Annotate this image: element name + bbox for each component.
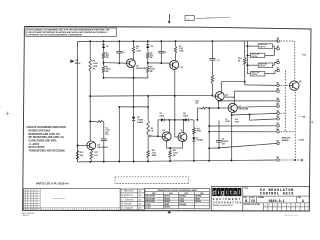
svg-text:E: E — [265, 205, 266, 207]
junction — [208, 125, 210, 127]
junction — [249, 113, 251, 115]
resistor R14 — [201, 107, 208, 109]
pin BM — [277, 131, 280, 134]
svg-text:D-664: D-664 — [179, 200, 184, 203]
pin BE — [277, 90, 280, 93]
wire Q1 emitter — [132, 66, 134, 78]
svg-text:DEC6534B: DEC6534B — [136, 67, 146, 70]
svg-text:1N645: 1N645 — [195, 197, 200, 200]
margin mark arrow top — [168, 14, 170, 22]
svg-text:W. Hindle: W. Hindle — [121, 203, 132, 206]
svg-text:DEC FORM NO.: DEC FORM NO. — [22, 213, 35, 215]
printed circuit rev row — [243, 202, 309, 204]
transistor Q6 — [215, 92, 224, 101]
junction — [231, 114, 233, 116]
transistor Q1 — [126, 59, 135, 68]
wire R12 to Q6 base — [211, 83, 213, 96]
pin AF — [277, 47, 280, 50]
capacitor C6 — [101, 138, 107, 140]
junction — [174, 119, 176, 121]
junction — [147, 95, 149, 97]
svg-text:D-662: D-662 — [179, 198, 184, 200]
wire Q1 collector — [133, 53, 135, 60]
svg-text:UNLESS OTHERWISE INDICATED:: UNLESS OTHERWISE INDICATED: — [27, 126, 67, 129]
resistor R16 — [76, 150, 79, 159]
wire — [247, 54, 250, 56]
svg-text:2N3534: 2N3534 — [164, 197, 170, 200]
wire cross link — [119, 106, 148, 108]
input arrow +6V INPUT — [71, 60, 74, 63]
junction — [196, 119, 198, 121]
wire dashed stub — [281, 130, 296, 132]
resistor R4 — [133, 41, 135, 46]
svg-text:CIRCUITS ARE PROPRIETARY IN NA: CIRCUITS ARE PROPRIETARY IN NATURE AND S… — [27, 31, 108, 34]
wire pin line B8 — [209, 131, 277, 133]
resistor R12 — [211, 75, 214, 84]
svg-text:E: E — [302, 205, 303, 207]
wire — [133, 120, 135, 161]
svg-text:E: E — [274, 205, 275, 207]
wire dashed to Q8 collector — [294, 41, 296, 81]
resistor R1 — [89, 59, 92, 71]
potentiometer R9 — [147, 120, 150, 135]
junction — [211, 94, 213, 96]
svg-text:E: E — [269, 205, 270, 207]
junction — [169, 160, 171, 162]
wire — [147, 73, 149, 78]
wire Q4 emitter — [167, 140, 169, 141]
margin stamp box top — [185, 16, 194, 21]
svg-text:.01: .01 — [122, 52, 125, 54]
svg-text:MV4045: MV4045 — [179, 203, 186, 206]
junction — [244, 81, 246, 83]
wire Q4 collector — [168, 131, 169, 134]
svg-text:J. Cudmore: J. Cudmore — [121, 199, 134, 202]
svg-text:Q4: Q4 — [162, 129, 164, 132]
svg-text:D-664: D-664 — [146, 205, 151, 208]
svg-text:EQUIPMENT: EQUIPMENT — [213, 198, 242, 201]
wire node line — [197, 107, 200, 109]
svg-text:DEC6534D: DEC6534D — [146, 200, 156, 203]
margin cross left — [6, 113, 10, 115]
revision arrow mark — [168, 210, 171, 213]
svg-text:1W 5%: 1W 5% — [252, 74, 258, 76]
wire — [247, 45, 258, 47]
wire Q7 collector — [233, 91, 235, 104]
wire — [211, 60, 213, 75]
transistor Q8 external — [290, 81, 299, 90]
wire dashed bus — [284, 71, 286, 132]
svg-text:LOAD: LOAD — [298, 138, 304, 141]
junction — [118, 62, 120, 64]
svg-text:COPYRIGHT 1967 BY DIGITAL EQUI: COPYRIGHT 1967 BY DIGITAL EQUIPMENT CORP… — [27, 33, 82, 36]
junction — [230, 160, 232, 162]
junction — [118, 161, 120, 163]
wire Q1 base — [104, 62, 127, 64]
svg-text:1W 5%: 1W 5% — [259, 66, 265, 68]
junction — [89, 161, 91, 163]
wire pin line B4 — [237, 106, 277, 107]
svg-text:NUMBER: NUMBER — [258, 197, 264, 199]
wire dashed stub — [281, 112, 286, 114]
svg-text:D-662: D-662 — [146, 204, 151, 206]
svg-text:G810-0-1: G810-0-1 — [269, 199, 285, 203]
junction — [218, 100, 220, 102]
pin BD — [277, 84, 280, 87]
svg-text:AJ: AJ — [277, 67, 279, 70]
svg-text:E: E — [292, 205, 293, 207]
junction — [211, 40, 213, 42]
svg-text:1N3606: 1N3606 — [164, 206, 170, 208]
svg-text:4-3: 4-3 — [139, 190, 142, 193]
junction — [218, 147, 220, 149]
wire Q5 emitter — [183, 140, 185, 141]
junction — [133, 40, 135, 42]
svg-text:i: i — [218, 191, 219, 197]
junction — [208, 131, 210, 133]
pin BK — [277, 118, 280, 121]
wire Q5 collector — [183, 133, 186, 134]
junction — [103, 161, 105, 163]
svg-text:5%: 5% — [93, 68, 96, 70]
svg-text:DEC3009B: DEC3009B — [146, 196, 156, 198]
svg-text:1N748A: 1N748A — [195, 195, 202, 198]
resistor box R18 — [258, 44, 272, 49]
pin BP — [277, 159, 280, 162]
transistor Q3 — [87, 141, 96, 150]
svg-text:g: g — [221, 191, 224, 197]
digital logo boxes — [212, 188, 216, 196]
svg-text:d: d — [213, 191, 216, 197]
svg-text:.01MF: .01MF — [225, 121, 230, 123]
svg-text:l: l — [239, 191, 240, 197]
svg-text:A: A — [302, 199, 304, 203]
wire pin line B6 — [250, 119, 278, 120]
svg-text:1/4W: 1/4W — [152, 154, 157, 157]
wire drop — [249, 114, 251, 120]
svg-text:S. Marshall: S. Marshall — [121, 190, 134, 193]
pin BJ — [277, 112, 280, 115]
svg-text:i: i — [226, 191, 227, 197]
transistor Q2 — [170, 60, 179, 69]
svg-text:1N748A: 1N748A — [196, 139, 203, 142]
wire V197 drop — [196, 108, 198, 120]
wire — [147, 59, 149, 66]
wire Q6 collector — [220, 82, 222, 93]
svg-text:D662: D662 — [235, 121, 239, 123]
diode D1 — [103, 41, 105, 44]
junction — [169, 147, 171, 149]
transistor Q7 — [228, 103, 237, 112]
wire pin line B5 — [232, 113, 277, 115]
wire V209 column — [208, 108, 210, 161]
junction — [218, 107, 220, 109]
wire pin line B9 — [209, 147, 219, 149]
terminal load — [301, 159, 303, 161]
svg-text:INPUT: INPUT — [75, 63, 82, 65]
svg-text:1W 5%: 1W 5% — [259, 46, 265, 48]
wire zener string — [133, 78, 135, 117]
number row — [243, 195, 309, 197]
pin BH — [277, 105, 280, 108]
svg-text:SENSE: SENSE — [282, 140, 290, 142]
junction — [157, 135, 159, 137]
svg-text:PRINTED CIRCUIT REV.: PRINTED CIRCUIT REV. — [244, 204, 261, 206]
resistor R17 — [90, 150, 93, 159]
pin BF — [277, 100, 280, 103]
resistor box R19 — [250, 53, 264, 58]
wire R1 column — [89, 41, 91, 59]
svg-text:lv ↓ m: lv ↓ m — [207, 16, 213, 19]
title block — [211, 187, 309, 211]
wire — [247, 73, 250, 75]
wire — [147, 135, 149, 150]
zener diode D7 — [192, 138, 195, 141]
svg-text:1W 5%: 1W 5% — [252, 56, 258, 58]
junction — [103, 40, 105, 42]
junction — [168, 119, 170, 121]
transistor Q4 — [162, 132, 171, 141]
wire — [103, 59, 105, 66]
resistor R5 — [147, 48, 149, 52]
svg-text:E: E — [288, 205, 289, 207]
junction node Q2 base tap — [147, 62, 149, 64]
junction — [294, 159, 296, 161]
wire — [102, 121, 105, 123]
junction — [89, 40, 91, 42]
svg-text:E: E — [283, 205, 284, 207]
resistor R14 column — [244, 41, 246, 57]
wire Q3 emitter — [90, 149, 92, 152]
wire pin line B7 — [209, 125, 277, 127]
capacitor C2 — [160, 41, 162, 51]
svg-text:BJ: BJ — [277, 110, 279, 112]
wire — [193, 141, 195, 161]
svg-text:A 4045: A 4045 — [137, 121, 143, 124]
border frame — [23, 26, 311, 211]
wire — [103, 73, 105, 78]
wire node A — [104, 77, 149, 79]
capacitor C1 — [118, 41, 120, 51]
junction — [208, 160, 210, 162]
resistor box R20 — [258, 63, 272, 68]
svg-text:.01: .01 — [164, 52, 167, 54]
wire R1 to Q3 collector — [89, 71, 91, 141]
parts table bottom tick row — [23, 207, 120, 209]
diode D8 — [185, 118, 188, 121]
svg-text:2N3535: 2N3535 — [164, 201, 170, 203]
svg-text:B: B — [245, 199, 247, 203]
wire — [247, 64, 258, 66]
wire input vertical — [77, 41, 79, 161]
svg-text:1/2W: 1/2W — [179, 51, 184, 53]
junction — [193, 160, 195, 162]
svg-text:Q2: Q2 — [181, 67, 184, 69]
svg-text:4-6: 4-6 — [139, 207, 142, 210]
wire Q2 base — [148, 62, 170, 64]
wire dashed Q8 base — [281, 84, 290, 86]
parts list table — [23, 189, 120, 211]
conversion chart table — [145, 188, 210, 208]
junction — [89, 120, 91, 122]
junction — [118, 40, 120, 42]
resistor R10 — [147, 150, 150, 158]
pin AH — [277, 61, 280, 64]
notice box — [26, 28, 116, 36]
resistor R3 — [102, 66, 105, 73]
svg-text:Q5: Q5 — [180, 130, 182, 132]
wire — [118, 107, 120, 162]
resistor R7 — [175, 41, 177, 46]
wire pot column — [147, 96, 149, 120]
junction — [147, 40, 149, 42]
wire Q6 emitter to Q7 base — [219, 100, 222, 101]
capacitor C4 — [218, 120, 220, 140]
svg-text:1N645: 1N645 — [164, 203, 169, 206]
capacitor C3 — [211, 41, 213, 59]
wire dashed ground ext — [281, 159, 301, 161]
svg-text:1/2W: 1/2W — [136, 51, 141, 53]
wire Q3 base — [78, 144, 87, 146]
pin AJ — [277, 69, 280, 72]
wire dashed Q8 emitter — [294, 92, 296, 160]
wire — [244, 65, 246, 85]
wire Q2 emitter — [174, 69, 176, 137]
wire ground rail — [78, 160, 278, 162]
junction — [160, 40, 162, 42]
wire divider feed — [90, 120, 96, 122]
margin mark right edge — [298, 115, 303, 117]
svg-text:PARTS LIST A-PL-G810-0-0: PARTS LIST A-PL-G810-0-0 — [36, 181, 69, 185]
wire diode line — [158, 119, 161, 121]
svg-text:4-5: 4-5 — [139, 199, 142, 202]
resistor box R21 — [250, 72, 264, 77]
wire Q2 collector — [175, 53, 177, 59]
margin handwriting top — [196, 17, 230, 18]
wire mid rail — [90, 94, 212, 97]
svg-text:TITLE: TITLE — [244, 188, 248, 190]
svg-text:1N3606: 1N3606 — [195, 201, 201, 203]
svg-text:4-6: 4-6 — [139, 203, 142, 206]
wire — [208, 107, 219, 109]
junction — [175, 40, 177, 42]
svg-text:1N748A: 1N748A — [179, 195, 186, 198]
svg-text:DEC6534B: DEC6534B — [239, 108, 249, 111]
svg-text:E: E — [297, 205, 298, 207]
wire box cluster vertical — [246, 41, 248, 74]
transistor Q5 — [178, 133, 187, 142]
pot wiper arrow — [150, 135, 152, 137]
junction — [133, 106, 135, 108]
svg-text:DEC6534B: DEC6534B — [146, 197, 156, 200]
junction — [147, 160, 149, 162]
svg-text:4-3: 4-3 — [139, 194, 142, 197]
svg-text:DEC3009B: DEC3009B — [97, 147, 108, 149]
svg-text:E: E — [306, 205, 307, 207]
svg-text:Q8: Q8 — [299, 81, 302, 83]
junction — [208, 107, 210, 109]
wire dashed A-pin — [281, 40, 295, 42]
svg-text:200: 200 — [195, 103, 198, 105]
svg-text:CS: CS — [251, 199, 255, 203]
diode D6 — [161, 118, 164, 121]
wire Q7 emitter — [232, 111, 235, 112]
resistor R13 — [193, 128, 196, 135]
pin BN — [277, 142, 280, 145]
junction — [160, 62, 162, 64]
pin BL — [277, 125, 280, 128]
wire — [165, 119, 185, 121]
wire D7 column — [193, 120, 195, 128]
svg-text:R. Melcher: R. Melcher — [120, 194, 134, 197]
wire — [193, 135, 195, 138]
svg-text:TRANSISTORS ARE DEC3009B: TRANSISTORS ARE DEC3009B — [29, 149, 65, 152]
svg-text:E: E — [279, 205, 280, 207]
junction — [174, 95, 176, 97]
signoff table — [120, 189, 144, 210]
junction node Q1 base tap — [103, 62, 105, 64]
svg-text:N. Duggan: N. Duggan — [120, 207, 133, 210]
junction — [89, 95, 91, 97]
resistor R8 — [97, 120, 104, 122]
junction — [133, 160, 135, 162]
wire D6 anode drop — [157, 120, 159, 136]
svg-text:4,020: 4,020 — [197, 130, 202, 133]
wire pin line B3 — [219, 100, 277, 102]
wire — [189, 119, 194, 121]
wire Q5 base stub — [175, 136, 178, 138]
pin AE — [277, 40, 280, 43]
svg-text:2N3009: 2N3009 — [164, 196, 170, 198]
resistor R6 — [147, 66, 150, 73]
svg-text:CORPORATION: CORPORATION — [213, 201, 243, 204]
junction — [208, 147, 210, 149]
junction — [183, 119, 185, 121]
resistor R11 — [169, 148, 171, 150]
diode D2 — [147, 41, 149, 45]
zener diode D5 — [132, 117, 135, 120]
wire +6V top rail — [78, 40, 248, 42]
svg-text:THIS SCHEMATIC IS FURNISHED ON: THIS SCHEMATIC IS FURNISHED ONLY FOR TES… — [27, 28, 110, 31]
dashed note box — [115, 177, 189, 184]
resistor R2 — [103, 48, 105, 52]
